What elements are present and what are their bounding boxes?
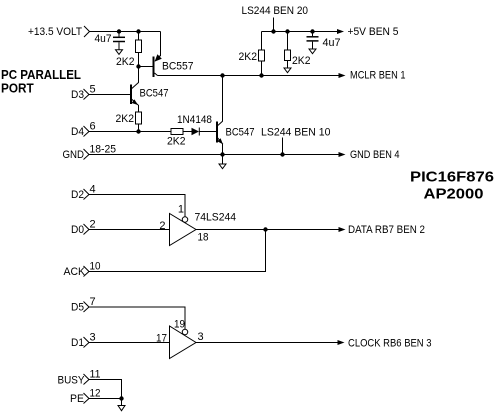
resistor R3 2K2 horizontal: [171, 129, 183, 135]
svg-text:BC547: BC547: [140, 88, 169, 100]
buffer U1a 74LS244: [170, 214, 197, 246]
svg-text:1: 1: [178, 204, 184, 216]
wire U1 output DATA net: [196, 229, 339, 231]
svg-text:2K2: 2K2: [239, 51, 258, 63]
wire to ground symbol under Q3: [222, 155, 224, 165]
svg-text:+5V BEN 5: +5V BEN 5: [348, 26, 399, 38]
svg-text:DATA RB7 BEN 2: DATA RB7 BEN 2: [348, 224, 425, 236]
svg-text:18: 18: [198, 232, 209, 244]
svg-text:PE: PE: [70, 393, 84, 405]
svg-text:BC547: BC547: [226, 127, 255, 139]
svg-text:1N4148: 1N4148: [177, 114, 212, 126]
junction R1 / Q1 base / Q2 collector: [136, 64, 140, 68]
label PIC16F876 AP2000: [410, 169, 494, 203]
connector D1: [71, 337, 89, 349]
junction Q3 emitter / GND net: [220, 152, 224, 156]
wire D4 to R3: [89, 131, 171, 133]
label PC PARALLEL PORT: [1, 67, 81, 96]
connector D3: [71, 89, 89, 101]
wire ACK to DATA junction: [89, 230, 266, 272]
ground under C2: [309, 49, 316, 54]
svg-text:3: 3: [198, 331, 204, 343]
svg-text:10: 10: [90, 261, 101, 273]
wire PE to junction: [89, 398, 122, 400]
junction R5 / +5V rail: [285, 29, 289, 33]
junction rail / R1: [136, 29, 140, 33]
junction DATA / ACK: [263, 227, 267, 231]
svg-text:D4: D4: [71, 126, 84, 138]
resistor R5 2K2: [285, 32, 291, 69]
svg-text:2K2: 2K2: [292, 55, 311, 67]
ground under Q3 emitter: [219, 164, 226, 169]
arrow MCLR output: [339, 73, 346, 78]
svg-text:PIC16F876: PIC16F876: [410, 169, 494, 186]
junction rail / C1: [117, 29, 121, 33]
wire R3 to diode: [183, 131, 192, 133]
svg-text:2: 2: [90, 219, 96, 231]
wire U2 output CLOCK net: [196, 342, 338, 344]
wire to ground symbol BUSY/PE: [121, 399, 123, 406]
junction R2 / D4 wire: [136, 129, 140, 133]
svg-text:4: 4: [90, 184, 96, 196]
wire GND net: [89, 154, 339, 156]
junction R4 / MCLR net: [259, 73, 263, 77]
arrow +5V output: [337, 29, 344, 34]
svg-text:4u7: 4u7: [323, 37, 341, 49]
wire D5 to U2 enable: [89, 307, 185, 329]
svg-text:PORT: PORT: [1, 81, 34, 96]
svg-text:BC557: BC557: [162, 61, 194, 73]
svg-text:AP2000: AP2000: [424, 186, 484, 203]
capacitor C1 4u7: [113, 32, 125, 50]
ground under BUSY/PE: [118, 406, 125, 411]
capacitor C2 4u7: [307, 32, 319, 50]
svg-text:19: 19: [174, 319, 185, 331]
svg-text:MCLR BEN 1: MCLR BEN 1: [350, 70, 406, 82]
svg-text:4u7: 4u7: [95, 33, 112, 45]
wire rail to Q1 emitter: [160, 32, 162, 57]
svg-text:18-25: 18-25: [90, 144, 117, 156]
transistor Q1 BC557: [139, 54, 162, 77]
connector D0: [71, 224, 89, 236]
svg-text:2K2: 2K2: [116, 113, 135, 125]
arrow DATA output: [339, 227, 346, 232]
svg-text:5: 5: [90, 84, 96, 96]
junction Q3 collector / MCLR net: [220, 73, 224, 77]
svg-text:GND: GND: [63, 149, 85, 161]
connector GND 18-25: [63, 149, 90, 161]
node LS244 BEN 20 stub: [273, 18, 275, 32]
connector PE: [70, 393, 89, 405]
arrow CLOCK output: [338, 340, 345, 345]
resistor R4 2K2: [259, 32, 265, 76]
ground under R5: [284, 68, 291, 73]
svg-text:6: 6: [90, 121, 96, 133]
connector +13.5 VOLT: [28, 26, 90, 38]
connector D2: [71, 189, 89, 201]
connector BUSY: [58, 374, 90, 387]
wire +13.5V rail: [90, 31, 161, 33]
wire D2 to U1 enable: [89, 195, 185, 217]
svg-text:11: 11: [90, 369, 101, 381]
buffer U2a 74LS244: [170, 326, 197, 359]
svg-text:7: 7: [90, 296, 96, 308]
svg-text:D3: D3: [71, 89, 84, 101]
svg-text:2K2: 2K2: [116, 56, 135, 68]
junction stub / +5V rail: [271, 29, 275, 33]
wire BUSY to junction: [89, 380, 122, 399]
svg-text:D5: D5: [71, 302, 84, 314]
wire D1 to U2 input: [89, 342, 170, 344]
resistor R2 2K2: [136, 112, 142, 132]
diode D1 1N4148: [192, 128, 217, 136]
svg-text:12: 12: [90, 388, 101, 400]
svg-text:74LS244: 74LS244: [195, 212, 237, 224]
svg-text:LS244 BEN 10: LS244 BEN 10: [261, 127, 331, 139]
connector D4: [71, 126, 89, 138]
svg-text:3: 3: [90, 332, 96, 344]
svg-text:D1: D1: [71, 337, 84, 349]
connector D5: [71, 302, 89, 314]
svg-text:BUSY: BUSY: [58, 375, 86, 387]
wire +5V rail: [262, 31, 338, 33]
junction stub / GND net: [280, 152, 284, 156]
node LS244 BEN 10 stub: [282, 138, 284, 155]
svg-text:2: 2: [159, 220, 165, 232]
wire MCLR net: [158, 75, 340, 77]
svg-text:LS244 BEN 20: LS244 BEN 20: [242, 5, 309, 17]
resistor R1 2K2: [136, 32, 142, 67]
junction BUSY / PE: [119, 396, 123, 400]
connector ACK: [64, 266, 90, 278]
svg-text:D2: D2: [71, 189, 84, 201]
svg-text:+13.5 VOLT: +13.5 VOLT: [28, 26, 82, 38]
wire D3 to Q2 base: [89, 94, 130, 96]
wire D0 to U1 input: [89, 229, 170, 231]
svg-text:GND BEN 4: GND BEN 4: [350, 149, 400, 161]
transistor Q3 BC547: [217, 76, 223, 155]
transistor Q2 BC547: [131, 67, 139, 113]
svg-text:2K2: 2K2: [167, 136, 186, 148]
ground under C1: [116, 50, 123, 55]
arrow GND output: [339, 152, 346, 157]
junction C2 / +5V rail: [310, 29, 314, 33]
svg-text:D0: D0: [71, 224, 84, 236]
svg-text:CLOCK RB6 BEN 3: CLOCK RB6 BEN 3: [348, 338, 432, 350]
svg-text:ACK: ACK: [64, 266, 86, 278]
